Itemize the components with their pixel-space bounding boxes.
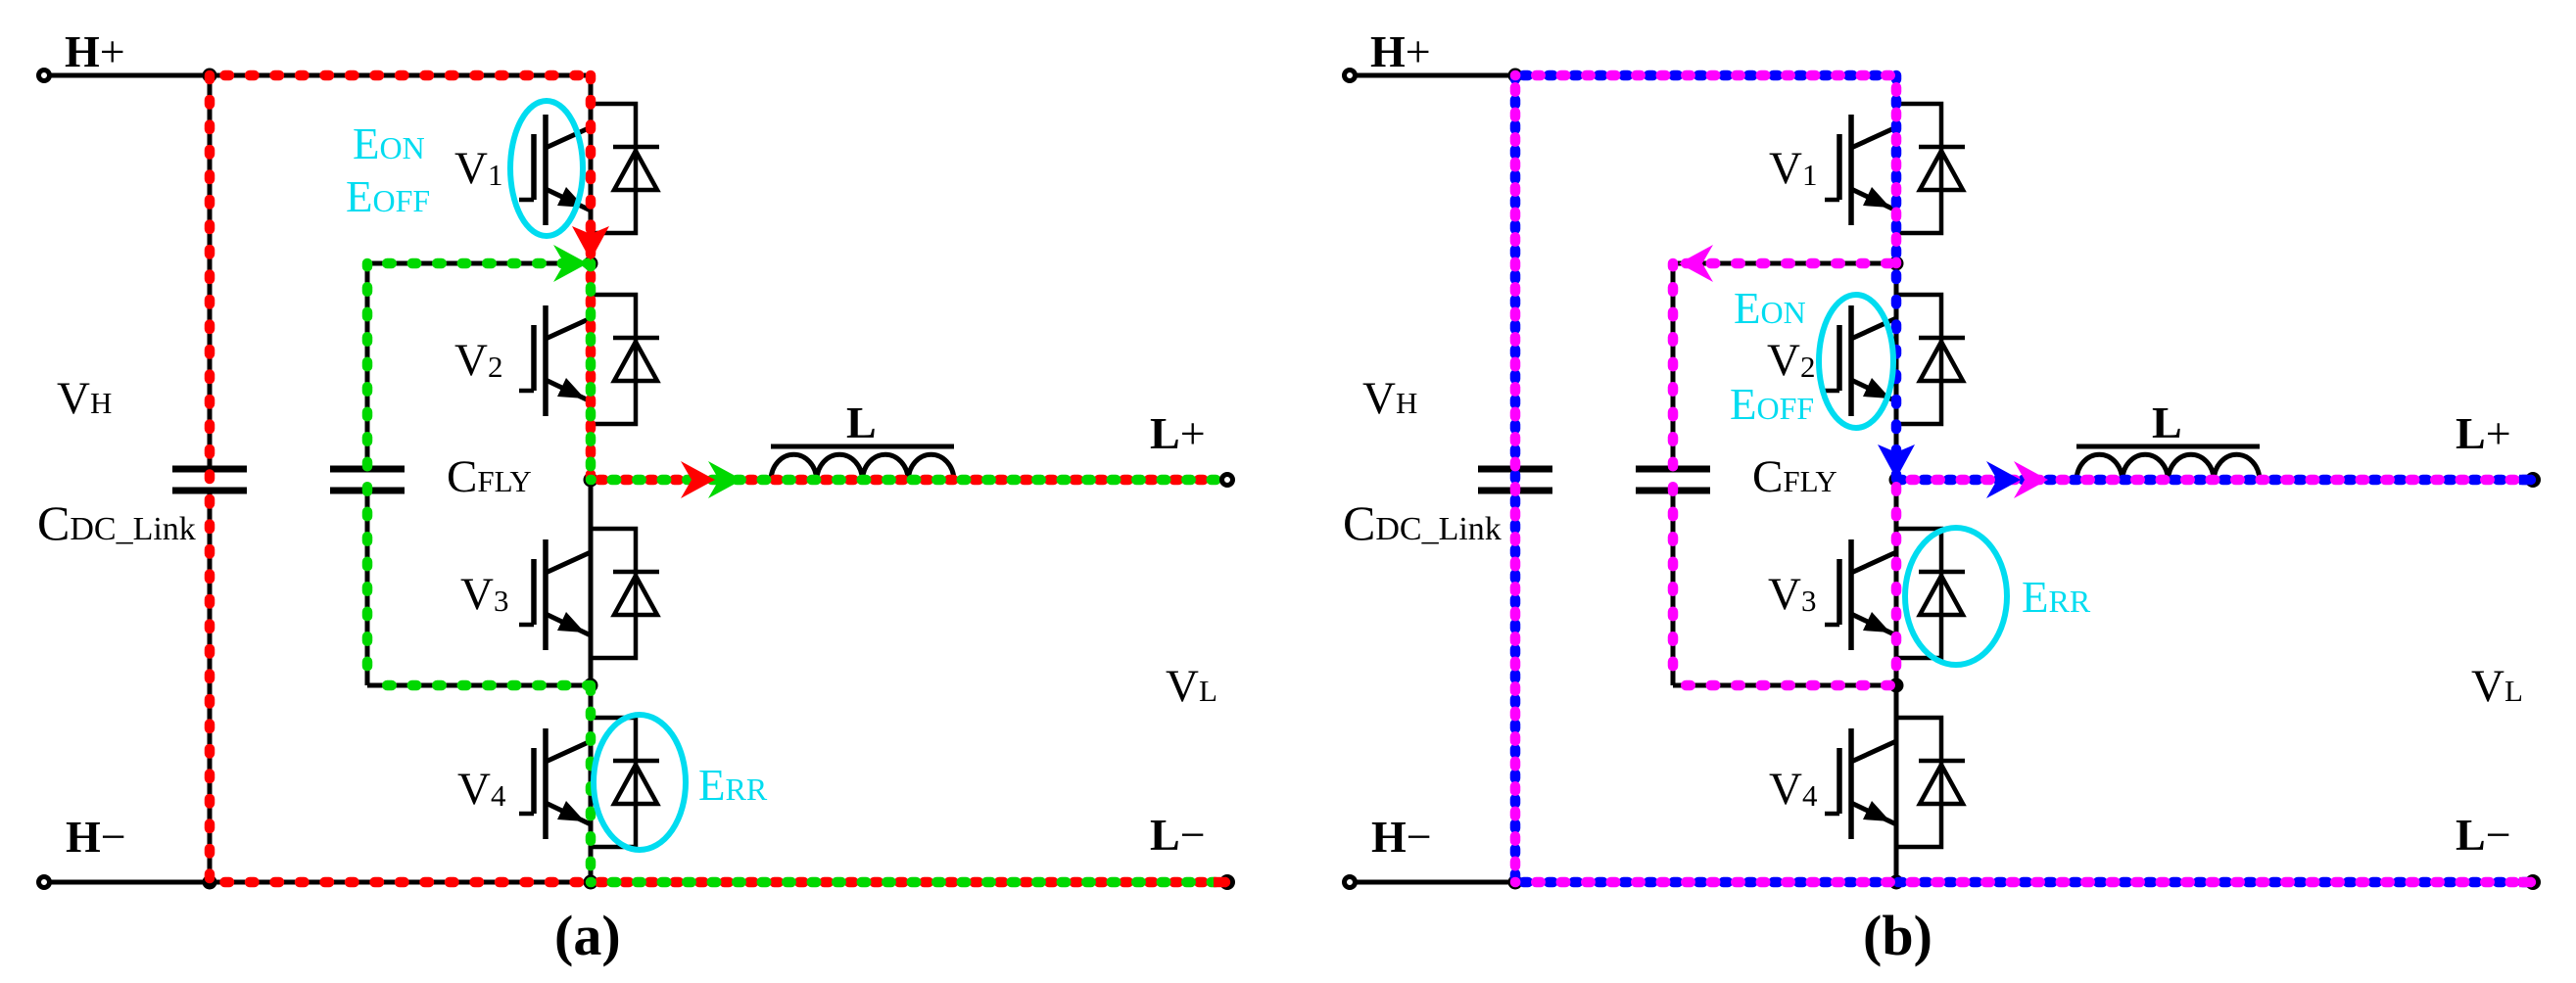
transistor V4b: collector lead bbox=[1851, 741, 1896, 762]
transistor V4b: gate bar bbox=[1837, 748, 1842, 814]
terminal L- bbox=[1219, 874, 1235, 890]
highlight ellipse EON/EOFF around V1 IGBT bbox=[510, 101, 583, 236]
capacitor CDC_Link bbox=[1478, 466, 1552, 473]
transistor V3b: gate bar bbox=[1837, 559, 1842, 625]
highlight ellipse EON/EOFF around V2 IGBT bbox=[1819, 295, 1893, 428]
transistor V1a: gate lead bbox=[519, 198, 534, 203]
transistor V3a: diode cathode bar bbox=[613, 570, 659, 575]
wire current path #ff00ff (top layer) bbox=[1673, 258, 1896, 269]
transistor V1b: gate bar bbox=[1837, 134, 1842, 200]
transistor V3b: emitter lead bbox=[1851, 614, 1896, 635]
transistor V4b: freewheel-diode loop bbox=[1896, 718, 1941, 847]
transistor V3b: gate lead bbox=[1825, 623, 1839, 628]
terminal H+ bbox=[39, 70, 50, 81]
svg-text:L: L bbox=[2152, 398, 2182, 447]
transistor V2b: IGBT body bar bbox=[1848, 305, 1854, 416]
transistor V1a: collector lead bbox=[546, 127, 591, 148]
transistor V1a: gate bar bbox=[531, 134, 537, 200]
transistor V4b: emitter lead bbox=[1851, 803, 1896, 824]
wire top rail bbox=[210, 73, 591, 78]
wire H+ to junction bbox=[50, 73, 210, 78]
transistor V4b: diode triangle bbox=[1920, 765, 1963, 804]
svg-text:L: L bbox=[846, 398, 877, 447]
svg-text:H−: H− bbox=[66, 812, 126, 862]
transistor V2b: diode cathode bar bbox=[1919, 336, 1965, 341]
transistor V3b: collector lead bbox=[1851, 552, 1896, 573]
transistor V2a: IGBT body bar bbox=[543, 305, 549, 416]
transistor V4a: emitter lead bbox=[546, 803, 591, 824]
terminal H+ bbox=[1345, 70, 1356, 81]
svg-text:H+: H+ bbox=[1370, 26, 1431, 76]
transistor V3a: emitter lead bbox=[546, 614, 591, 635]
terminal H- bbox=[39, 877, 50, 888]
svg-text:(a): (a) bbox=[554, 904, 621, 967]
node B (V3/V4 junction) bbox=[584, 679, 598, 693]
terminal H- bbox=[1345, 877, 1356, 888]
wire top rail bbox=[1515, 73, 1896, 78]
wire current path #ff0000 (bottom layer) bbox=[210, 70, 591, 81]
transistor V2a: diode cathode bar bbox=[613, 336, 659, 341]
svg-text:H+: H+ bbox=[65, 26, 125, 76]
wire DC-link leg upper bbox=[1513, 75, 1518, 469]
transistor V1a: diode cathode bar bbox=[613, 145, 659, 150]
wire H- to junction bbox=[1356, 880, 1515, 885]
transistor V1a: diode triangle bbox=[614, 151, 657, 190]
transistor V3b: IGBT body bar bbox=[1848, 539, 1854, 650]
wire switch rail bbox=[1894, 75, 1899, 882]
transistor V1a: freewheel-diode loop bbox=[591, 104, 636, 233]
transistor V2b: diode triangle bbox=[1920, 342, 1963, 381]
transistor V1b: emitter arrow bbox=[1863, 187, 1890, 208]
transistor V4a: freewheel-diode loop bbox=[591, 718, 636, 847]
transistor V3a: diode triangle bbox=[614, 576, 657, 615]
inductor L windings bbox=[771, 454, 954, 480]
node H+ junction bbox=[1508, 69, 1523, 83]
node bottom rail junction bbox=[1889, 875, 1904, 890]
transistor V3a: freewheel-diode loop bbox=[591, 529, 636, 658]
wire CFLY leg upper bbox=[365, 263, 370, 469]
arrow magenta left at node A bbox=[1679, 245, 1713, 282]
transistor V1b: diode triangle bbox=[1920, 151, 1963, 190]
transistor V3a: gate lead bbox=[519, 623, 534, 628]
node CFLY output bbox=[584, 473, 598, 488]
transistor V4a: diode cathode bar bbox=[613, 759, 659, 764]
wire output to inductor bbox=[1896, 478, 2527, 483]
node A (V1/V2 junction) bbox=[1889, 257, 1904, 271]
transistor V2a: collector lead bbox=[546, 318, 591, 339]
inductor L top bar bbox=[771, 445, 954, 449]
svg-text:(b): (b) bbox=[1863, 904, 1932, 967]
arrow green right into node A bbox=[553, 245, 588, 282]
capacitor CFLY bbox=[330, 466, 405, 473]
wire DC-link leg lower bbox=[208, 491, 213, 882]
node B (V3/V4 junction) bbox=[1889, 679, 1904, 693]
transistor V2b: gate bar bbox=[1837, 325, 1842, 391]
transistor V1b: IGBT body bar bbox=[1848, 115, 1854, 225]
highlight ellipse ERR around V3 diode bbox=[1905, 528, 2007, 665]
inductor L windings bbox=[2076, 454, 2260, 480]
node H- junction bbox=[203, 875, 217, 890]
highlight ellipse ERR around V4 diode bbox=[594, 715, 686, 850]
transistor V2b: emitter lead bbox=[1851, 380, 1896, 401]
wire CFLY branch top bbox=[367, 261, 591, 266]
wire bottom rail bbox=[1515, 880, 2533, 885]
transistor V3a: collector lead bbox=[546, 552, 591, 573]
arrow green right on output bbox=[708, 461, 742, 498]
transistor V1b: emitter lead bbox=[1851, 189, 1896, 211]
transistor V4a: diode triangle bbox=[614, 765, 657, 804]
transistor V3b: diode cathode bar bbox=[1919, 570, 1965, 575]
wire output to inductor bbox=[591, 478, 1221, 483]
transistor V1b: gate lead bbox=[1825, 198, 1839, 203]
transistor V4a: emitter arrow bbox=[557, 801, 585, 821]
transistor V1a: emitter arrow bbox=[557, 187, 585, 208]
transistor V3a: IGBT body bar bbox=[543, 539, 549, 650]
transistor V1a: emitter lead bbox=[546, 189, 591, 211]
wire CFLY leg upper bbox=[1671, 263, 1676, 469]
transistor V1a: IGBT body bar bbox=[543, 115, 549, 225]
arrow red down into node A bbox=[572, 226, 609, 260]
wire current path #0000ff (bottom layer) bbox=[1515, 70, 1896, 81]
transistor V4a: gate lead bbox=[519, 812, 534, 817]
transistor V4b: IGBT body bar bbox=[1848, 728, 1854, 839]
transistor V2a: gate bar bbox=[531, 325, 537, 391]
transistor V3b: emitter arrow bbox=[1863, 612, 1890, 632]
wire current path #00d800 (top layer) bbox=[367, 258, 591, 269]
transistor V4a: collector lead bbox=[546, 741, 591, 762]
wire H- to junction bbox=[50, 880, 210, 885]
transistor V2b: gate lead bbox=[1825, 389, 1839, 394]
transistor V4b: emitter arrow bbox=[1863, 801, 1890, 821]
wire bottom rail bbox=[210, 880, 1227, 885]
transistor V4a: gate bar bbox=[531, 748, 537, 814]
wire switch rail bbox=[589, 75, 594, 882]
capacitor CFLY bbox=[1636, 466, 1710, 473]
svg-text:L−: L− bbox=[2456, 810, 2511, 860]
transistor V3a: gate bar bbox=[531, 559, 537, 625]
wire CFLY leg lower bbox=[1671, 491, 1676, 685]
transistor V2b: collector lead bbox=[1851, 318, 1896, 339]
arrow red right on output bbox=[681, 461, 715, 498]
arrow magenta right on output bbox=[2014, 461, 2048, 498]
transistor V1b: diode cathode bar bbox=[1919, 145, 1965, 150]
transistor V4a: IGBT body bar bbox=[543, 728, 549, 839]
transistor V1b: collector lead bbox=[1851, 127, 1896, 148]
transistor V4b: gate lead bbox=[1825, 812, 1839, 817]
transistor V2a: gate lead bbox=[519, 389, 534, 394]
transistor V3b: diode triangle bbox=[1920, 576, 1963, 615]
terminal L- bbox=[2525, 874, 2541, 890]
terminal L+ bbox=[1222, 475, 1233, 486]
transistor V2a: emitter lead bbox=[546, 380, 591, 401]
arrow blue down into CFLY node bbox=[1878, 445, 1915, 479]
transistor V4b: diode cathode bar bbox=[1919, 759, 1965, 764]
wire CFLY leg lower bbox=[365, 491, 370, 685]
transistor V2a: emitter arrow bbox=[557, 378, 585, 398]
svg-text:L−: L− bbox=[1150, 810, 1206, 860]
transistor V2b: emitter arrow bbox=[1863, 378, 1890, 398]
wire DC-link leg upper bbox=[208, 75, 213, 469]
node bottom rail junction bbox=[584, 875, 598, 890]
transistor V3b: freewheel-diode loop bbox=[1896, 529, 1941, 658]
wire CFLY branch top bbox=[1673, 261, 1896, 266]
transistor V3a: emitter arrow bbox=[557, 612, 585, 632]
transistor V1b: freewheel-diode loop bbox=[1896, 104, 1941, 233]
capacitor CDC_Link bbox=[172, 466, 247, 473]
wire CFLY branch bottom bbox=[1673, 683, 1896, 688]
inductor L top bar bbox=[2076, 445, 2260, 449]
node A (V1/V2 junction) bbox=[584, 257, 598, 271]
svg-text:L+: L+ bbox=[2456, 408, 2511, 458]
transistor V2b: freewheel-diode loop bbox=[1896, 295, 1941, 424]
wire H+ to junction bbox=[1356, 73, 1515, 78]
node CFLY output bbox=[1889, 473, 1904, 488]
arrow blue right on output bbox=[1986, 461, 2021, 498]
svg-text:L+: L+ bbox=[1150, 408, 1206, 458]
wire DC-link leg lower bbox=[1513, 491, 1518, 882]
svg-text:H−: H− bbox=[1371, 812, 1432, 862]
node H+ junction bbox=[203, 69, 217, 83]
node H- junction bbox=[1508, 875, 1523, 890]
transistor V2a: diode triangle bbox=[614, 342, 657, 381]
transistor V2a: freewheel-diode loop bbox=[591, 295, 636, 424]
terminal L+ bbox=[2525, 472, 2541, 488]
wire CFLY branch bottom bbox=[367, 683, 591, 688]
